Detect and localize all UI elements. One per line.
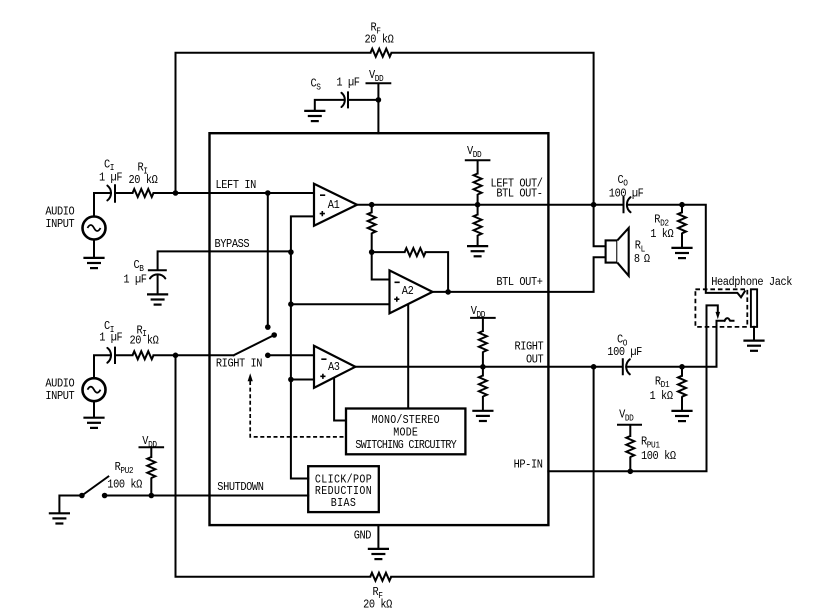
svg-text:20 kΩ: 20 kΩ xyxy=(363,599,392,612)
svg-text:MODE: MODE xyxy=(393,427,418,440)
svg-text:GND: GND xyxy=(354,530,372,543)
svg-text:AUDIO: AUDIO xyxy=(45,378,74,391)
svg-text:8 Ω: 8 Ω xyxy=(634,253,650,266)
svg-text:RIGHT: RIGHT xyxy=(514,341,543,354)
svg-text:INPUT: INPUT xyxy=(45,219,74,232)
svg-text:INPUT: INPUT xyxy=(45,390,74,403)
svg-text:A3: A3 xyxy=(328,362,340,375)
svg-text:SHUTDOWN: SHUTDOWN xyxy=(217,481,263,494)
svg-text:HP-IN: HP-IN xyxy=(514,459,543,472)
svg-text:20 kΩ: 20 kΩ xyxy=(130,335,159,348)
svg-text:100 kΩ: 100 kΩ xyxy=(641,450,676,463)
svg-text:1 kΩ: 1 kΩ xyxy=(650,229,674,242)
svg-text:RIGHT IN: RIGHT IN xyxy=(216,358,262,371)
svg-text:100 kΩ: 100 kΩ xyxy=(107,479,142,492)
svg-text:1 µF: 1 µF xyxy=(99,172,123,185)
svg-text:1 µF: 1 µF xyxy=(99,332,123,345)
svg-text:A1: A1 xyxy=(328,199,340,212)
svg-text:Headphone Jack: Headphone Jack xyxy=(711,276,792,289)
svg-text:BIAS: BIAS xyxy=(331,497,356,510)
svg-text:20 kΩ: 20 kΩ xyxy=(365,34,394,47)
svg-text:A2: A2 xyxy=(402,285,414,298)
svg-text:MONO/STEREO: MONO/STEREO xyxy=(372,414,440,427)
svg-text:BTL OUT+: BTL OUT+ xyxy=(496,276,543,289)
svg-text:BYPASS: BYPASS xyxy=(215,238,250,251)
svg-text:LEFT IN: LEFT IN xyxy=(216,180,256,193)
svg-text:1 kΩ: 1 kΩ xyxy=(650,390,674,403)
svg-text:100 µF: 100 µF xyxy=(607,346,642,359)
svg-text:100 µF: 100 µF xyxy=(609,188,644,201)
svg-text:1 µF: 1 µF xyxy=(123,274,147,287)
svg-text:1 µF: 1 µF xyxy=(336,77,360,90)
svg-text:BTL OUT-: BTL OUT- xyxy=(496,188,542,201)
svg-text:AUDIO: AUDIO xyxy=(45,206,74,219)
svg-text:OUT: OUT xyxy=(526,354,544,367)
svg-text:20 kΩ: 20 kΩ xyxy=(129,174,158,187)
svg-text:SWITCHING CIRCUITRY: SWITCHING CIRCUITRY xyxy=(355,439,457,452)
